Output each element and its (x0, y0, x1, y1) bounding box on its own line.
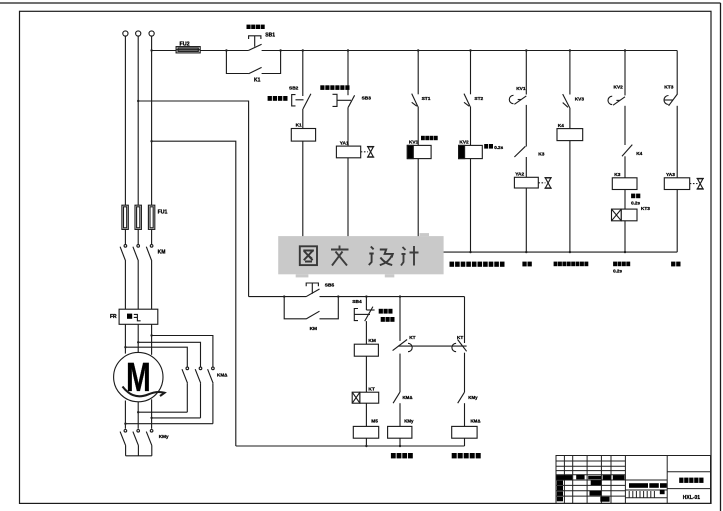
wire tap L3 to lower bus (152, 141, 236, 446)
wire delta tap from L1 (125, 347, 187, 367)
svg-text:SB5: SB5 (325, 282, 335, 288)
svg-text:KT: KT (368, 386, 374, 392)
contact KM phase c (146, 245, 153, 261)
svg-text:SB1: SB1 (265, 32, 275, 38)
wire rung SB4 mid3 (365, 403, 367, 426)
limit switch KV3 (563, 94, 570, 108)
label drawing-title CJK (679, 478, 683, 483)
wire rung6 mid (569, 108, 571, 129)
node rung4 bus (469, 49, 471, 51)
svg-text:KMy: KMy (159, 434, 169, 439)
watermark box (278, 233, 443, 277)
svg-text:KM: KM (310, 326, 317, 332)
watermark glyph ji (401, 246, 419, 266)
node delta return L2 (137, 411, 139, 413)
wire star legs (125, 445, 127, 455)
contact KM phase a (120, 245, 127, 261)
svg-text:KT: KT (457, 335, 463, 341)
label start-switch CJK (247, 25, 265, 29)
node L2 delta tap (137, 341, 139, 343)
coil YA2 (514, 177, 538, 188)
coil KM (354, 344, 378, 356)
label sensor-switch CJK below bus (450, 262, 505, 267)
wire phase L3 below motor (151, 399, 153, 429)
svg-text:FR: FR (110, 314, 117, 320)
svg-text:SB2: SB2 (289, 85, 299, 91)
delay contact KT right (452, 340, 467, 352)
node bypass2 right (337, 295, 339, 297)
wire rung star mid1 (399, 354, 401, 393)
svg-text:YA2: YA2 (515, 171, 524, 177)
node bus rung5 (525, 251, 527, 253)
svg-text:KT3: KT3 (664, 85, 673, 91)
title block middle section blobs (629, 483, 648, 488)
wire rung7 top (624, 51, 626, 96)
valve symbol YA1 (361, 147, 375, 158)
node rung star (399, 295, 401, 297)
coil M5 (353, 426, 378, 438)
delay contact KV1 (509, 95, 526, 104)
wire rung delta top (464, 297, 466, 343)
node bus rung6 (569, 251, 571, 253)
wire phase L2 (137, 36, 139, 205)
svg-text:FU1: FU1 (158, 210, 168, 216)
svg-text:K1: K1 (254, 77, 261, 83)
node bypass left (225, 49, 227, 51)
contact KM-delta interlock (393, 392, 400, 403)
contact K3 (514, 146, 525, 157)
wire phase L2 below motor (137, 402, 139, 429)
upper section bottom bus (303, 251, 677, 253)
wire delta leg b down (200, 383, 202, 418)
coil YA3 (664, 178, 689, 190)
wire phase L2 to FR (137, 261, 139, 309)
wire rung3 mid (417, 107, 419, 146)
label motor-up-switch CJK line2 (381, 317, 395, 322)
wire rung2 bottom (347, 158, 349, 252)
wire rung7 mid2 (624, 156, 626, 178)
wire delta return to L1 (125, 423, 212, 425)
wire rung8 mid (676, 106, 678, 178)
title block outer (556, 456, 711, 504)
svg-text:K3: K3 (538, 152, 544, 158)
node rung3 bus (417, 49, 419, 51)
timer KT (352, 392, 378, 403)
node rung SB4 (365, 295, 367, 297)
node rung7 bus (624, 49, 626, 51)
contact KM-delta b (195, 367, 202, 383)
node bus rung4 (469, 251, 471, 253)
wire rung delta mid1 (464, 353, 466, 393)
coil KV1 (407, 145, 431, 158)
node delta return L1 (124, 423, 126, 425)
wire rung4 top (470, 51, 472, 95)
contact KM-delta c (208, 367, 215, 383)
contact KM bypass (284, 297, 338, 319)
wire rung1 bottom (302, 141, 304, 252)
wire rung7 mid3 (624, 190, 626, 210)
wire delta leg a down (186, 383, 188, 412)
label open CJK below bus (522, 262, 531, 267)
wire control feed from L3 (152, 50, 177, 52)
svg-text:FU2: FU2 (180, 41, 190, 47)
wire phase L1 (124, 36, 126, 205)
wire rung3 bottom (417, 159, 419, 253)
label stop-switch CJK (268, 96, 288, 101)
wire rung5 mid1 (525, 105, 527, 147)
label brake-switch CJK (320, 85, 349, 90)
svg-text:ST1: ST1 (422, 96, 431, 102)
coil YA1 (336, 146, 360, 158)
svg-text:KMΔ: KMΔ (471, 418, 481, 423)
node L1 delta tap (124, 346, 126, 348)
coil K4 (557, 129, 583, 141)
contact KM-star b (133, 430, 140, 446)
svg-text:KV1: KV1 (516, 86, 526, 92)
node rung2 bus (347, 49, 349, 51)
node tap L3b (150, 140, 152, 142)
wire rung6 top (569, 51, 571, 95)
svg-text:KV1: KV1 (409, 140, 419, 146)
node lowbus SB4 rung (365, 445, 367, 447)
thermal relay FR (119, 309, 158, 324)
svg-text:KM: KM (368, 338, 375, 344)
wire rung2 mid (347, 107, 349, 146)
wire rung4 mid (470, 107, 472, 146)
contact KM-star c (146, 430, 153, 446)
node bypass2 left (283, 295, 285, 297)
wire delta return to L2 (138, 411, 187, 413)
contact KM phase b (133, 245, 140, 261)
title block text blobs row (557, 475, 704, 502)
label retract CJK below bus (613, 262, 630, 274)
wire phase L1 FR to motor (124, 324, 126, 353)
supply terminal L3 (149, 31, 154, 36)
wire rung star bottom (399, 438, 401, 446)
label brake-actuator CJK below bus (554, 262, 589, 267)
label star-start CJK (391, 453, 413, 458)
pushbutton SB5 (306, 283, 320, 297)
wire KT link (398, 345, 467, 347)
node bypass right (279, 49, 281, 51)
pushbutton SB1 (249, 36, 262, 51)
svg-text:KV2: KV2 (459, 140, 469, 146)
node bus rung7 (624, 251, 626, 253)
wire rung6 bottom (569, 141, 571, 253)
svg-text:KM: KM (158, 250, 166, 256)
svg-text:YA1: YA1 (340, 141, 349, 147)
wire delta tap from L2 (138, 342, 200, 367)
motor M1 (114, 352, 163, 401)
svg-text:M5: M5 (371, 418, 378, 424)
delay contact KT left (393, 340, 413, 352)
wire star point bar (126, 455, 152, 457)
svg-text:KT: KT (409, 335, 415, 341)
wire rung delta mid2 (464, 403, 466, 426)
lower section bottom bus (236, 445, 465, 447)
title block verticals left grid (564, 456, 625, 504)
label delta-run CJK (452, 453, 481, 458)
svg-text:SB3: SB3 (362, 96, 372, 102)
wire tap L2 to lower control (138, 101, 248, 297)
delay contact KT3 (664, 94, 678, 106)
svg-text:SB4: SB4 (352, 299, 362, 305)
svg-text:KV3: KV3 (575, 97, 585, 103)
svg-text:0.2s: 0.2s (613, 268, 622, 273)
wire FU2 to SB1 (200, 50, 248, 52)
svg-text:KT3: KT3 (641, 206, 650, 212)
valve symbol YA3 (690, 178, 704, 189)
wire rung1 mid (302, 109, 304, 129)
label motor-up-switch CJK line1 (379, 309, 393, 314)
timer KT3 (612, 209, 638, 221)
svg-text:ST2: ST2 (474, 96, 483, 102)
wire phase L3 (151, 36, 153, 205)
fuse FU1 phase b (135, 205, 141, 229)
coil KM-delta (452, 426, 477, 438)
wire delta tap from L3 (152, 336, 213, 368)
watermark glyph tu (300, 246, 317, 265)
limit switch ST1 (412, 94, 418, 107)
wire rung3 top (417, 51, 419, 95)
wire SB1 to bus (262, 50, 678, 52)
svg-text:KV2: KV2 (614, 85, 624, 91)
svg-text:K3: K3 (614, 172, 620, 178)
label valve-down CJK (484, 144, 503, 150)
svg-text:K4: K4 (558, 123, 564, 129)
outer border top (0, 2, 721, 4)
valve symbol YA2 (538, 178, 552, 189)
svg-text:K4: K4 (636, 151, 642, 157)
fuse FU1 phase a (122, 205, 128, 229)
contact KM-star interlock (458, 392, 465, 403)
title block mid blobs (591, 480, 602, 485)
svg-text:KMΔ: KMΔ (403, 395, 413, 400)
node control feed (150, 49, 152, 51)
wire phase L2 below fuse (137, 229, 139, 244)
wire rung5 mid2 (525, 157, 527, 177)
supply terminal L1 (123, 31, 128, 36)
limit switch ST2 (464, 94, 470, 107)
node delta return L3 (150, 417, 152, 419)
contact KM-delta a (182, 367, 189, 383)
svg-text:0.2s: 0.2s (631, 200, 640, 205)
wire rung star mid2 (399, 403, 401, 426)
pushbutton SB4 NC (354, 297, 374, 322)
title block middle dividers (625, 456, 667, 504)
wire rung5 top (525, 51, 527, 95)
delay contact KV2 (608, 96, 625, 105)
svg-text:0.2s: 0.2s (494, 145, 503, 150)
contact K4 (622, 145, 632, 157)
wire phase L3 below fuse (151, 229, 153, 244)
svg-text:KMy: KMy (404, 418, 414, 423)
coil KV2 (459, 145, 483, 158)
wire rung SB4 mid2 (365, 356, 367, 392)
wire rung8 top (676, 51, 678, 95)
node lowbus star rung (399, 445, 401, 447)
wire phase L1 below fuse (124, 229, 126, 244)
coil K1 (291, 129, 315, 142)
wire rung4 bottom (470, 159, 472, 253)
supply terminal L2 (136, 31, 141, 36)
wire line A left (249, 296, 306, 298)
contact KM-star a (120, 430, 127, 446)
wire phase L3 FR to motor (151, 324, 153, 355)
wire rung1 top (302, 51, 304, 97)
title block middle ticks (629, 491, 654, 498)
wire rung5 bottom (525, 188, 527, 252)
svg-text:KMΔ: KMΔ (217, 372, 228, 377)
wire rung SB4 mid1 (365, 321, 367, 344)
watermark glyph wen (331, 246, 349, 266)
wire phase L3 to FR (151, 261, 153, 309)
watermark glyph she (369, 247, 393, 266)
node rung5 bus (525, 49, 527, 51)
node rung6 bus (569, 49, 571, 51)
node L3 delta tap (150, 334, 152, 336)
title block col1 blobs (557, 481, 563, 486)
node rung1 bus (302, 49, 304, 51)
fuse FU1 phase c (148, 205, 154, 229)
svg-text:KMy: KMy (468, 395, 478, 400)
coil KM-star (388, 426, 412, 438)
outer border right (720, 3, 722, 511)
wire rung star top (399, 297, 401, 341)
svg-text:K1: K1 (296, 123, 302, 129)
wire rung7 bottom (624, 221, 626, 252)
contact K1 bypass (226, 51, 280, 74)
wire delta leg c down (212, 383, 214, 424)
wire rung2 top (347, 51, 349, 96)
wire phase L2 FR to motor (137, 324, 139, 352)
svg-text:HXL-01: HXL-01 (683, 495, 700, 501)
wire rung delta bottom (464, 438, 466, 446)
title block right dividers (667, 472, 710, 489)
label valve-up CJK (421, 136, 438, 140)
wire rung7 mid1 (624, 106, 626, 145)
svg-text:YA3: YA3 (666, 172, 675, 178)
coil K3 (612, 178, 637, 190)
title block horizontals left grid (556, 461, 625, 496)
pushbutton SB2 NC (292, 94, 311, 109)
pushbutton SB3 (333, 94, 355, 107)
label delay CJK (631, 194, 640, 206)
wire rung SB4 bottom (365, 438, 367, 446)
fuse FU2 (176, 47, 200, 53)
label close CJK below bus (671, 262, 680, 267)
wire phase L1 to FR (124, 261, 126, 309)
wire phase L1 below motor (124, 401, 126, 429)
wire delta return to L3 (152, 417, 201, 419)
node tap L2 (137, 100, 139, 102)
wire line A right (320, 296, 465, 298)
wire rung8 bottom (676, 190, 678, 253)
